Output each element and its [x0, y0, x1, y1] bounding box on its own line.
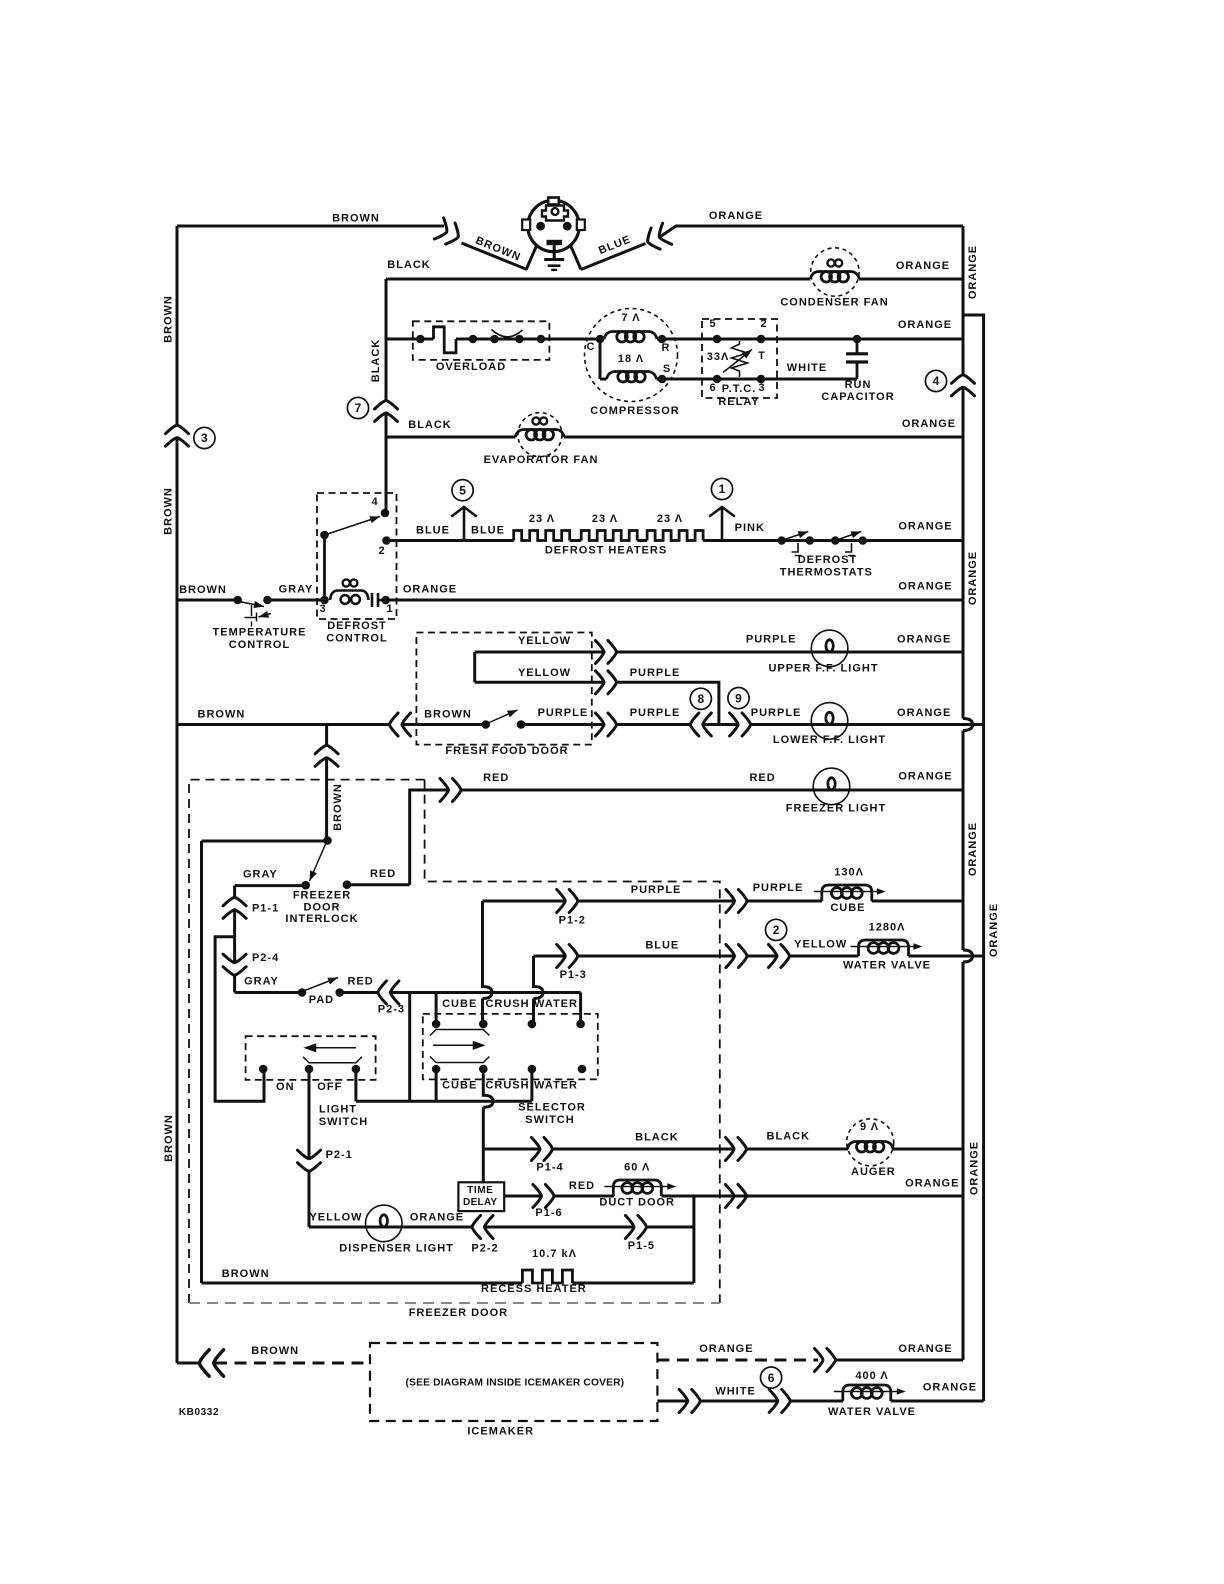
- wire: yellow pair connector: [473, 652, 476, 682]
- svg-text:RED: RED: [749, 772, 775, 784]
- wire: gray vertical P1-1/P2-4 (with break gaps): [233, 886, 236, 993]
- icemaker water valve solenoid 400 ohm: [834, 1385, 906, 1401]
- svg-text:ORANGE: ORANGE: [699, 1343, 753, 1355]
- svg-text:9: 9: [735, 691, 742, 705]
- defrost control timer coil: [330, 591, 386, 608]
- svg-text:LOWER F.F. LIGHT: LOWER F.F. LIGHT: [773, 734, 886, 746]
- break P1-2: [557, 890, 578, 913]
- wire: compressor row from bus: [386, 338, 434, 341]
- selector lower contact water: [528, 1065, 537, 1074]
- break )) white 1: [679, 1390, 700, 1413]
- svg-text:ORANGE: ORANGE: [897, 634, 951, 646]
- wire: cube row purple 2: [578, 900, 734, 903]
- wire: crush lower vertical (hops light-switch wire): [483, 1069, 493, 1182]
- svg-text:P2-3: P2-3: [378, 1004, 405, 1016]
- svg-text:33Λ: 33Λ: [707, 351, 730, 363]
- svg-text:P1-5: P1-5: [628, 1240, 655, 1252]
- recess heater 10.7k: [522, 1270, 572, 1283]
- wire: white link: [701, 1400, 777, 1403]
- wire: duct door to line1: [662, 1195, 964, 1198]
- wire: light-switch common row: [356, 1100, 532, 1103]
- node 7: [347, 397, 368, 418]
- evaporator fan infinity mark: [532, 417, 547, 424]
- wire: freezer light RED/ORANGE: [461, 789, 963, 792]
- svg-text:ORANGE: ORANGE: [403, 584, 457, 596]
- break )) cube: [726, 890, 747, 913]
- evaporator fan motor winding: [515, 430, 564, 441]
- svg-text:BROWN: BROWN: [222, 1268, 270, 1280]
- wire: water lower return: [530, 1069, 533, 1101]
- svg-text:23 Λ: 23 Λ: [657, 513, 683, 525]
- temperature control dot b: [263, 596, 272, 605]
- wire: dashed brown to icemaker box: [215, 1362, 370, 1365]
- svg-text:AUGER: AUGER: [851, 1166, 896, 1178]
- svg-text:BROWN: BROWN: [332, 783, 344, 831]
- break )) P1-4: [531, 1138, 552, 1161]
- svg-text:BLACK: BLACK: [370, 339, 382, 383]
- selector top contact water: [528, 1020, 537, 1029]
- svg-text:ORANGE: ORANGE: [902, 418, 956, 430]
- svg-text:PURPLE: PURPLE: [630, 707, 681, 719]
- svg-text:ORANGE: ORANGE: [898, 319, 952, 331]
- defrost control terminal 4: [381, 509, 390, 518]
- break )) freezer light: [440, 779, 461, 802]
- wire: RED from interlock: [347, 883, 410, 886]
- wire: row C PURPLE out of box: [521, 723, 604, 726]
- wire: light switch ON feed branch: [215, 937, 264, 1101]
- svg-text:ORANGE: ORANGE: [897, 707, 951, 719]
- upper F.F. light bulb: [811, 630, 848, 667]
- break )) row C: [595, 713, 616, 736]
- wire: P1-2 purple vertical (hops red wire): [483, 901, 493, 1024]
- svg-text:SELECTOR: SELECTOR: [518, 1102, 586, 1114]
- svg-text:4: 4: [933, 374, 940, 388]
- break << P2-2: [472, 1216, 493, 1239]
- svg-text:2: 2: [773, 923, 780, 937]
- break on left brown bus: [166, 425, 189, 446]
- wire: white to water valve coil: [791, 1400, 843, 1403]
- svg-text:PURPLE: PURPLE: [631, 884, 682, 896]
- break on interlock drop: [315, 745, 338, 766]
- break )) P1-5: [625, 1216, 646, 1239]
- svg-text:PURPLE: PURPLE: [630, 667, 681, 679]
- svg-text:ORANGE: ORANGE: [968, 1141, 980, 1195]
- node 4: [925, 370, 946, 391]
- test point arrow 1: [710, 507, 734, 541]
- svg-text:ORANGE: ORANGE: [410, 1212, 464, 1224]
- compressor dashed circle: [585, 309, 678, 402]
- overload contact dot 4: [515, 335, 524, 344]
- svg-text:FREEZER: FREEZER: [293, 890, 351, 902]
- svg-text:THERMOSTATS: THERMOSTATS: [780, 567, 873, 579]
- cube solenoid 130 ohm: [814, 885, 886, 901]
- svg-text:DOOR: DOOR: [304, 902, 341, 914]
- svg-text:PAD: PAD: [309, 994, 334, 1006]
- relay pin 2: [757, 335, 766, 344]
- selector lower contact cube: [432, 1065, 441, 1074]
- svg-text:1: 1: [386, 603, 393, 615]
- wire: cube lower return: [435, 1069, 438, 1101]
- wire: white from icemaker: [657, 1400, 687, 1403]
- wire: cube row to coil: [748, 900, 822, 903]
- svg-text:BROWN: BROWN: [198, 709, 246, 721]
- auger motor winding 9 ohm: [847, 1142, 893, 1153]
- svg-text:ORANGE: ORANGE: [967, 822, 979, 876]
- svg-text:TEMPERATURE: TEMPERATURE: [213, 627, 307, 639]
- defrost thermostat 2 dot b: [858, 536, 867, 545]
- wire: R to relay pin5/pin2 to cap to line1: [657, 338, 963, 341]
- selector lower contact crush: [479, 1065, 488, 1074]
- selector upper blade: [430, 1030, 489, 1036]
- cap top junction: [853, 335, 862, 344]
- svg-text:ORANGE: ORANGE: [709, 210, 763, 222]
- svg-text:BLUE: BLUE: [416, 525, 450, 537]
- light switch mid contact: [305, 1065, 314, 1074]
- temperature control sensor glyph: [245, 605, 257, 627]
- wire: evap fan row right: [564, 436, 963, 439]
- wire: water valve to line2: [909, 955, 984, 958]
- wire: brown lead to plug: [462, 243, 528, 270]
- svg-text:SWITCH: SWITCH: [319, 1116, 368, 1128]
- svg-text:CONTROL: CONTROL: [326, 633, 387, 645]
- svg-text:ORANGE: ORANGE: [898, 771, 952, 783]
- defrost heater 1 (23 ohm): [514, 531, 570, 541]
- node 6: [761, 1367, 782, 1388]
- svg-text:YELLOW: YELLOW: [518, 667, 571, 679]
- svg-text:3: 3: [319, 603, 326, 615]
- svg-text:DEFROST: DEFROST: [327, 620, 387, 632]
- wire: heater link 2: [637, 539, 647, 542]
- svg-text:7 Λ: 7 Λ: [621, 312, 640, 324]
- svg-text:CONTROL: CONTROL: [229, 639, 290, 651]
- overload dot 5: [537, 335, 546, 344]
- svg-text:ON: ON: [276, 1081, 295, 1093]
- svg-text:PURPLE: PURPLE: [538, 707, 589, 719]
- compressor start winding 18ohm: [607, 372, 657, 383]
- svg-text:R: R: [662, 342, 671, 354]
- wire: inner-left vertical to recess heater: [200, 841, 203, 1283]
- relay pin 5: [713, 335, 722, 344]
- svg-text:CUBE: CUBE: [830, 902, 865, 914]
- wire: S to relay pin6/pin3 (WHITE): [657, 378, 858, 381]
- node 5: [452, 480, 473, 501]
- auger dashed circle: [847, 1119, 894, 1166]
- compressor C terminal: [596, 335, 605, 344]
- break P1-3: [557, 945, 578, 968]
- selector switch dashed box: [423, 1014, 598, 1080]
- wire: recess heater row brown: [202, 1282, 523, 1285]
- svg-text:10.7 kΛ: 10.7 kΛ: [532, 1248, 577, 1260]
- wire: orange to line1 bottom: [837, 1359, 964, 1362]
- svg-text:LIGHT: LIGHT: [319, 1104, 357, 1116]
- svg-text:BLACK: BLACK: [635, 1132, 679, 1144]
- wire: RED from PAD: [340, 991, 379, 994]
- fresh food door dashed box: [416, 633, 591, 745]
- svg-text:GRAY: GRAY: [243, 869, 278, 881]
- node 9: [728, 688, 749, 709]
- wire: auger row black 2: [553, 1148, 734, 1151]
- wire: top ORANGE run to right bus: [661, 226, 964, 237]
- PAD switch dot b: [335, 988, 344, 997]
- wire: P2-1 vertical from light switch (with break gap): [308, 1069, 311, 1227]
- wire: water valve short link: [748, 955, 776, 958]
- defrost control arm: [325, 517, 381, 536]
- svg-text:COMPRESSOR: COMPRESSOR: [590, 405, 679, 417]
- svg-text:RED: RED: [569, 1180, 595, 1192]
- svg-text:BLUE: BLUE: [471, 525, 505, 537]
- power plug: [522, 198, 585, 270]
- svg-text:CONDENSER FAN: CONDENSER FAN: [780, 297, 888, 309]
- svg-text:7: 7: [355, 401, 362, 415]
- temperature control adjust arrow: [259, 614, 272, 618]
- svg-text:DUCT DOOR: DUCT DOOR: [599, 1197, 675, 1209]
- wire: RED freezer light riser: [410, 790, 449, 885]
- wire: left BROWN vertical bus (with break gap): [176, 226, 179, 1363]
- svg-text:DELAY: DELAY: [463, 1197, 498, 1208]
- svg-text:ORANGE: ORANGE: [988, 903, 1000, 957]
- svg-text:6: 6: [768, 1371, 775, 1385]
- svg-text:2: 2: [760, 318, 767, 330]
- break P (upper FF): [595, 641, 616, 664]
- svg-text:BROWN: BROWN: [163, 1114, 175, 1162]
- svg-text:WHITE: WHITE: [715, 1386, 755, 1398]
- PAD switch arm: [304, 978, 339, 992]
- svg-text:PURPLE: PURPLE: [746, 634, 797, 646]
- selector arrow: [433, 1042, 484, 1049]
- wire: BROWN to temperature control: [177, 599, 238, 602]
- defrost thermostat 1 sensor glyph: [792, 543, 802, 556]
- svg-text:RUN: RUN: [845, 379, 872, 391]
- svg-text:P.T.C.: P.T.C.: [722, 383, 757, 395]
- svg-text:BROWN: BROWN: [251, 1345, 299, 1357]
- node 3: [194, 427, 215, 448]
- interlock brown dot: [323, 836, 332, 845]
- wire: time delay to P1-6: [504, 1195, 541, 1198]
- wire: bottom brown to icemaker: [177, 1362, 198, 1365]
- svg-text:60 Λ: 60 Λ: [624, 1162, 650, 1174]
- svg-text:FRESH FOOD DOOR: FRESH FOOD DOOR: [445, 745, 568, 757]
- wire: GRAY to PAD switch: [235, 991, 302, 994]
- overload contact dot 3: [490, 335, 499, 344]
- wire: duct door red: [554, 1195, 614, 1198]
- svg-text:5: 5: [459, 483, 466, 497]
- svg-text:RELAY: RELAY: [718, 396, 759, 408]
- compressor run winding 7ohm: [604, 332, 657, 343]
- wire: condenser fan row left: [386, 278, 811, 281]
- svg-text:1280Λ: 1280Λ: [869, 922, 906, 934]
- svg-text:TIME: TIME: [467, 1185, 493, 1196]
- svg-text:PINK: PINK: [735, 522, 765, 534]
- svg-text:RED: RED: [347, 976, 373, 988]
- defrost heater 2 (23 ohm): [581, 531, 637, 541]
- defrost control terminal 3: [320, 596, 329, 605]
- wire: lower yellow YELLOW: [475, 681, 604, 684]
- wire: auger row black: [483, 1148, 540, 1151]
- break in top brown wire: [434, 218, 463, 248]
- temperature control dot a: [233, 596, 242, 605]
- wire: duct/dispenser/recess vertical: [692, 1196, 695, 1283]
- break << node 8: [690, 713, 711, 736]
- svg-text:BLACK: BLACK: [767, 1131, 811, 1143]
- svg-text:ORANGE: ORANGE: [967, 245, 979, 299]
- wire: condenser fan row right: [859, 278, 963, 281]
- break P1-1: [223, 897, 246, 918]
- wire: BROWN row C from left bus: [177, 723, 390, 726]
- PTC relay dashed box: [702, 319, 777, 398]
- wire: cube row orange to line1: [872, 900, 963, 903]
- wire: P1-3 blue vertical (hops red wire): [534, 956, 544, 1024]
- svg-text:BROWN: BROWN: [332, 213, 380, 225]
- light switch OFF contact: [352, 1065, 361, 1074]
- freezer door dashed outline (notched): [189, 780, 425, 1303]
- svg-text:ORANGE: ORANGE: [898, 521, 952, 533]
- light switch dashed box: [246, 1036, 376, 1080]
- freezer light bulb: [813, 768, 850, 805]
- svg-text:PURPLE: PURPLE: [753, 882, 804, 894]
- svg-text:ORANGE: ORANGE: [923, 1382, 977, 1394]
- break )) duct orange: [725, 1185, 746, 1208]
- lower F.F. light bulb: [811, 703, 848, 740]
- compressor R terminal: [658, 335, 667, 344]
- svg-text:ORANGE: ORANGE: [896, 260, 950, 272]
- wire: dispenser light row yellow/orange: [309, 1226, 472, 1229]
- svg-text:CUBE: CUBE: [442, 1080, 477, 1092]
- svg-text:YELLOW: YELLOW: [518, 635, 571, 647]
- FF door switch dot a: [481, 720, 490, 729]
- svg-text:P1-1: P1-1: [252, 903, 279, 915]
- wire: water top contact turn: [579, 993, 582, 1025]
- icemaker dashed box: [370, 1343, 657, 1421]
- svg-text:WATER: WATER: [534, 998, 578, 1010]
- svg-text:130Λ: 130Λ: [834, 867, 864, 879]
- svg-text:S: S: [663, 363, 671, 375]
- interlock gray dot: [301, 881, 310, 890]
- wire: dispenser row to duct vertical: [648, 1226, 694, 1229]
- wire: right ORANGE vertical line 1 (hops + break): [963, 226, 973, 1360]
- svg-text:GRAY: GRAY: [244, 976, 279, 988]
- wire: right ORANGE vertical line 2: [963, 315, 984, 1401]
- break P2-4: [223, 954, 246, 975]
- wire: dispenser row mid: [485, 1226, 634, 1229]
- evaporator fan dashed circle: [518, 413, 562, 457]
- wire: dashed orange from icemaker: [657, 1359, 818, 1362]
- svg-text:4: 4: [371, 496, 378, 508]
- svg-text:GRAY: GRAY: [279, 584, 314, 596]
- break (yellow/purple B): [595, 671, 616, 694]
- svg-text:FREEZER DOOR: FREEZER DOOR: [409, 1307, 508, 1319]
- condenser fan motor winding: [810, 272, 859, 283]
- node 2: [766, 919, 787, 940]
- interlock red dot: [343, 880, 352, 889]
- overload terminal dot 1: [416, 335, 425, 344]
- svg-text:P1-3: P1-3: [560, 969, 587, 981]
- svg-text:23 Λ: 23 Λ: [529, 513, 555, 525]
- svg-text:400 Λ: 400 Λ: [855, 1370, 888, 1382]
- svg-text:BLACK: BLACK: [387, 259, 431, 271]
- wire: OFF contact drop: [354, 1069, 357, 1101]
- wire: row C into FF door box: [402, 723, 486, 726]
- overload dashed box: [413, 321, 550, 360]
- defrost control terminal 2: [382, 536, 391, 545]
- svg-text:18 Λ: 18 Λ: [618, 353, 644, 365]
- defrost thermostat 2 dot a: [831, 536, 840, 545]
- selector top contact 4: [576, 1020, 585, 1029]
- PTC thermistor zigzag: [732, 341, 748, 377]
- wire: auger row to coil: [747, 1148, 848, 1151]
- svg-text:WATER VALVE: WATER VALVE: [843, 960, 931, 972]
- svg-text:KB0332: KB0332: [179, 1407, 219, 1418]
- defrost control terminal 1: [381, 596, 390, 605]
- wire: GRAY to defrost terminal 3: [268, 599, 325, 602]
- svg-text:DEFROST HEATERS: DEFROST HEATERS: [545, 545, 667, 557]
- wire: blue lead from plug: [581, 244, 646, 270]
- wire: purple B to junction drop: [617, 682, 719, 724]
- freezer interlock arm: [310, 843, 327, 881]
- break << P2-3: [378, 981, 399, 1004]
- light switch arrow: [306, 1044, 357, 1051]
- wire: brown drop to freezer interlock (with break gap): [325, 725, 328, 841]
- svg-text:EVAPORATOR FAN: EVAPORATOR FAN: [484, 454, 599, 466]
- temperature control arm: [239, 602, 264, 607]
- PAD switch dot a: [298, 988, 307, 997]
- defrost thermostat 1 arm: [783, 532, 808, 541]
- svg-text:T: T: [758, 350, 766, 362]
- water valve solenoid 1280 ohm: [851, 940, 923, 956]
- svg-text:YELLOW: YELLOW: [794, 939, 847, 951]
- selector top contact cube: [432, 1020, 441, 1029]
- svg-text:RED: RED: [370, 868, 396, 880]
- svg-text:5: 5: [709, 318, 716, 330]
- svg-text:BLACK: BLACK: [408, 419, 452, 431]
- break )) icemaker orange: [814, 1349, 835, 1372]
- svg-text:PURPLE: PURPLE: [751, 707, 802, 719]
- wire: row C junction segment: [703, 723, 738, 726]
- duct door solenoid 60 ohm: [604, 1180, 676, 1196]
- light switch blade: [303, 1057, 362, 1063]
- break )) node 9: [730, 713, 751, 736]
- wire: BLUE defrost heater feed: [387, 539, 514, 542]
- break on black bus: [375, 400, 398, 421]
- svg-text:9 Λ: 9 Λ: [860, 1121, 879, 1133]
- svg-text:23 Λ: 23 Λ: [592, 513, 618, 525]
- overload contact arc: [492, 330, 523, 337]
- relay pin 3: [757, 375, 766, 384]
- dispenser light bulb: [366, 1205, 403, 1242]
- svg-text:WHITE: WHITE: [787, 362, 827, 374]
- test point arrow 5: [452, 507, 476, 541]
- svg-text:ORANGE: ORANGE: [898, 1343, 952, 1355]
- svg-text:UPPER F.F. LIGHT: UPPER F.F. LIGHT: [768, 663, 878, 675]
- wire: water valve row blue: [534, 955, 566, 958]
- wire: black vertical bus (plug neutral, with break gap): [385, 279, 388, 513]
- svg-text:ORANGE: ORANGE: [967, 551, 979, 605]
- wire: recess heater row right: [572, 1282, 694, 1285]
- break in blue wire: [643, 223, 671, 252]
- defrost thermostat 1 dot a: [777, 536, 786, 545]
- svg-text:6: 6: [709, 382, 716, 394]
- wire: water valve yellow: [791, 955, 859, 958]
- wire: ORANGE from defrost terminal 1 to line1: [386, 599, 963, 602]
- svg-text:YELLOW: YELLOW: [309, 1212, 362, 1224]
- svg-text:ORANGE: ORANGE: [898, 581, 952, 593]
- break << row C: [389, 713, 410, 736]
- svg-text:P2-1: P2-1: [326, 1149, 353, 1161]
- wire: C terminal down: [599, 339, 602, 379]
- defrost heater 3 (23 ohm): [647, 531, 703, 541]
- svg-text:C: C: [587, 341, 596, 353]
- selector lower contact 4: [578, 1065, 587, 1074]
- wire: upper FF light YELLOW: [475, 651, 604, 654]
